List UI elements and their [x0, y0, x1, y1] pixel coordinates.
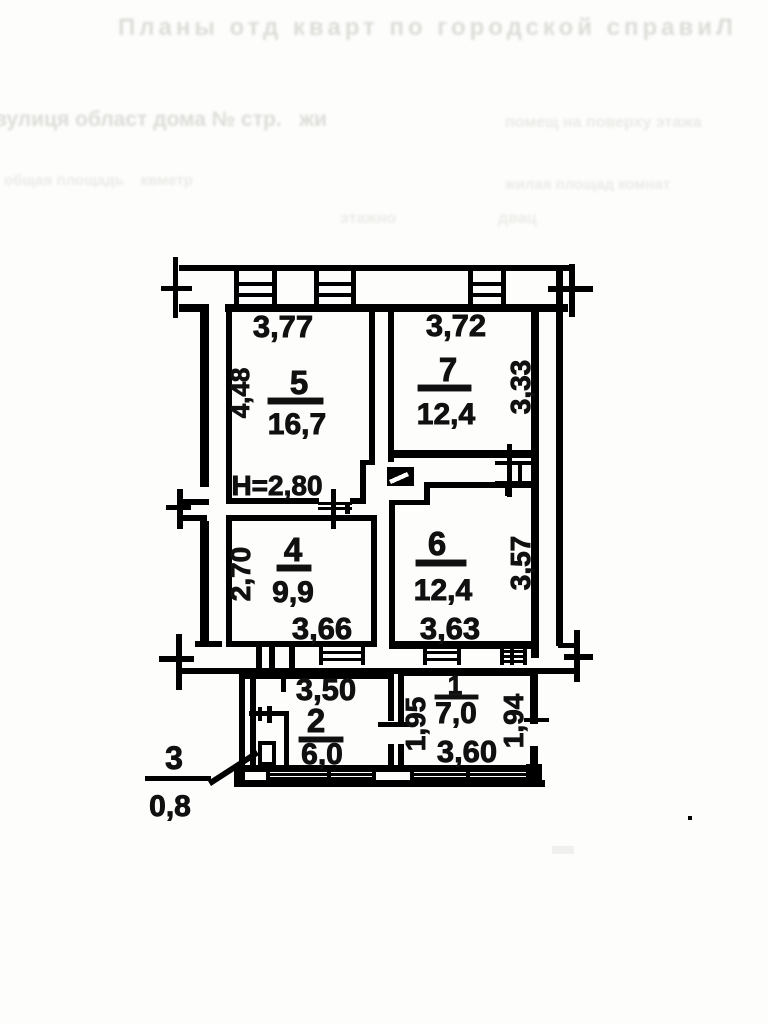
svg-text:1,94: 1,94 [498, 693, 529, 748]
fixture: small closet box outline [258, 741, 276, 766]
svg-text:16,7: 16,7 [268, 408, 326, 441]
svg-text:5: 5 [290, 364, 308, 401]
axis tick top-right horizontal [548, 286, 593, 292]
ghost bleed-through text row 3 left [4, 172, 193, 189]
ghost bleed-through text row 1 [118, 14, 737, 42]
svg-text:H=2,80: H=2,80 [231, 470, 322, 501]
bottom band black corner block [526, 764, 542, 787]
middle wall window hatch below room6 B: left [500, 647, 504, 665]
wall: right exterior [556, 266, 563, 646]
svg-text:9,9: 9,9 [272, 576, 314, 609]
middle wall window hatch below room6 A: left [423, 647, 427, 665]
room 1 underline [435, 695, 478, 699]
window W1 bar 2 [236, 293, 274, 297]
bottom band hatch left segment line b [266, 777, 376, 780]
bottom band hatch divider 5 [466, 772, 470, 781]
ghost bleed-through text row 4b [498, 210, 537, 228]
leader line diagonal [208, 750, 259, 786]
ghost bleed-through text row 2 left [0, 108, 327, 132]
middle wall door bar 2 [269, 643, 275, 674]
door D7 upper line [495, 461, 537, 465]
wall: lower block left exterior [239, 668, 245, 786]
svg-text:12,4: 12,4 [417, 398, 476, 431]
room 1 left wall upper [398, 670, 404, 722]
room 6 top wall left low segment [389, 500, 430, 505]
svg-text:3,66: 3,66 [292, 611, 352, 646]
middle wall door bar 3 [289, 643, 295, 674]
room 2 door tick [378, 722, 409, 727]
room 5 underline [268, 398, 323, 404]
wall: lower block right exterior lower part [530, 746, 538, 786]
window W1 right jamb [272, 271, 277, 304]
hatch B line b [500, 655, 527, 658]
hatch B line a [500, 650, 527, 653]
svg-text:6,0: 6,0 [301, 738, 343, 771]
closet jamb tick 2 [267, 706, 272, 723]
middle wall: left corner segment [195, 641, 222, 647]
hatch line a [319, 651, 365, 654]
svg-text:3,72: 3,72 [426, 308, 486, 343]
room 4 bottom wall [226, 641, 377, 647]
hatch A line a [423, 651, 461, 654]
room 7 right wall / right inner wall [531, 308, 539, 658]
axis tick bottom-left vertical [176, 634, 182, 690]
door swing tick into room 2 [281, 673, 286, 692]
door D7 lower line [495, 481, 537, 485]
door D5 top line [318, 502, 352, 505]
room 2 right wall upper [388, 673, 394, 721]
door D5 jamb tick [345, 504, 350, 514]
svg-text:4: 4 [284, 531, 303, 568]
axis tick mid-left vertical [177, 489, 183, 529]
bottom band hatch right segment line a [410, 773, 526, 776]
wall: lower-right connector [532, 668, 576, 674]
window W2 left jamb [314, 271, 319, 304]
svg-text:12,4: 12,4 [414, 574, 473, 607]
window W3 bar 1 [470, 282, 504, 286]
vent shaft black box [387, 467, 414, 486]
leader line horizontal for label 3 [145, 776, 211, 781]
wall: right step horizontal [558, 643, 577, 648]
room 5 bottom wall left segment [226, 498, 319, 504]
hatch A line b [423, 658, 461, 661]
room 2 underline [299, 737, 343, 742]
ghost bleed-through text row 3 right [505, 176, 670, 193]
svg-text:4,48: 4,48 [225, 368, 255, 419]
bottom band hatch left segment line a [266, 773, 376, 776]
svg-text:7,0: 7,0 [435, 697, 477, 730]
closet right wall [284, 711, 289, 767]
axis tick top-left horizontal [161, 286, 192, 291]
room 1 top wall [398, 670, 538, 676]
window W2 bar 2 [316, 293, 354, 297]
axis tick mid-left horizontal [166, 505, 191, 510]
room 6 top step vertical [424, 482, 430, 505]
room 7 underline [418, 385, 471, 391]
room 4 underline [277, 565, 311, 571]
hatch B right [523, 647, 527, 665]
svg-text:3,77: 3,77 [253, 309, 313, 344]
wall stub: room5 bottom level to tick [181, 499, 209, 505]
bottom band hatch divider 3 [372, 772, 376, 781]
room 5 left wall [226, 307, 232, 504]
hatch line b [319, 658, 365, 661]
hatch A right [457, 647, 461, 665]
window W2 bar 1 [316, 282, 354, 286]
middle wall window hatch below room4: frame [319, 647, 323, 665]
room 6 left wall [389, 500, 395, 648]
room 2 left wall [250, 679, 256, 772]
window W1 left jamb [234, 271, 239, 304]
svg-text:3,33: 3,33 [505, 360, 536, 415]
door D7 jamb short [518, 461, 522, 483]
bottom band hatch divider 2 [327, 772, 331, 781]
svg-text:3,60: 3,60 [437, 734, 497, 769]
page dot artifact [688, 816, 692, 820]
wall: left exterior upper segment [200, 304, 209, 487]
ghost bleed-through text row 2 right [505, 114, 702, 132]
wall: top exterior inner line main [225, 304, 568, 312]
axis tick top-right vertical [569, 264, 575, 317]
axis tick mid-right vertical [574, 630, 580, 682]
room 2 right wall lower [388, 744, 394, 772]
axis tick top-left vertical [173, 257, 178, 318]
window W3 bar 2 [470, 293, 504, 297]
room 6 bottom wall [389, 641, 539, 649]
wall: top exterior inner line left stub [179, 304, 208, 312]
room 5 right wall upper [369, 308, 375, 464]
svg-text:1,95: 1,95 [400, 697, 431, 752]
window W1 bar 1 [236, 282, 274, 286]
hatch frame right [361, 647, 365, 665]
svg-text:3,63: 3,63 [420, 611, 480, 646]
bottom band hatch divider 1 [266, 772, 270, 781]
door D7 tick vertical [507, 444, 512, 497]
hatch B mid bar [510, 647, 514, 665]
room 4 right wall [371, 515, 377, 647]
closet top wall [249, 711, 289, 716]
room 4 left wall [226, 515, 232, 647]
door D5 bottom line [318, 507, 352, 510]
room 1 left wall lower [398, 744, 404, 766]
wall: top exterior outer line [179, 265, 569, 271]
closet jamb tick 1 [258, 707, 262, 721]
ghost bleed-through text row 4 [340, 210, 396, 228]
middle wall: lower line [181, 668, 538, 674]
room 6 underline [416, 560, 466, 566]
wall stub: room4 top level to tick [181, 515, 207, 521]
room 7 bottom wall [388, 450, 531, 458]
window W3 left jamb [468, 271, 473, 304]
bottom band left corner vertical [234, 766, 239, 786]
svg-text:7: 7 [439, 351, 457, 388]
room 5 right wall lower [360, 460, 366, 504]
room 6 top wall [424, 482, 531, 488]
door D5 swing tick [331, 489, 336, 529]
window W2 right jamb [351, 271, 356, 304]
room 4 top wall [226, 515, 377, 521]
svg-text:3: 3 [165, 740, 183, 776]
wall: lower block right exterior upper part [530, 668, 538, 724]
window W3 right jamb [501, 271, 506, 304]
bottom band hatch right segment line b [410, 777, 526, 780]
wall: left exterior lower segment [200, 521, 209, 647]
axis tick mid-right horizontal [564, 654, 593, 660]
room 6 door tick [505, 482, 511, 496]
svg-text:6: 6 [428, 525, 446, 562]
room 5 right wall jog [360, 460, 375, 465]
middle wall door bar 1 [256, 643, 262, 674]
room 2 bottom wall [245, 766, 394, 772]
hatch B line c [500, 660, 527, 663]
svg-text:2,70: 2,70 [225, 547, 256, 602]
bottom band top line [245, 765, 538, 772]
bottom band hatch divider 4 [410, 772, 414, 781]
bottom band outer line [234, 780, 545, 787]
room 5 bottom wall right segment [350, 498, 366, 504]
svg-text:2: 2 [307, 702, 325, 739]
svg-text:0,8: 0,8 [149, 790, 191, 823]
room 1 right door tick [524, 718, 549, 722]
svg-text:3,57: 3,57 [505, 536, 536, 591]
room 7 left wall [388, 308, 394, 462]
faint smudge artifact [552, 846, 574, 854]
axis tick bottom-left horizontal [159, 656, 194, 662]
svg-text:3,50: 3,50 [296, 672, 356, 707]
room 2 top wall [245, 673, 394, 679]
